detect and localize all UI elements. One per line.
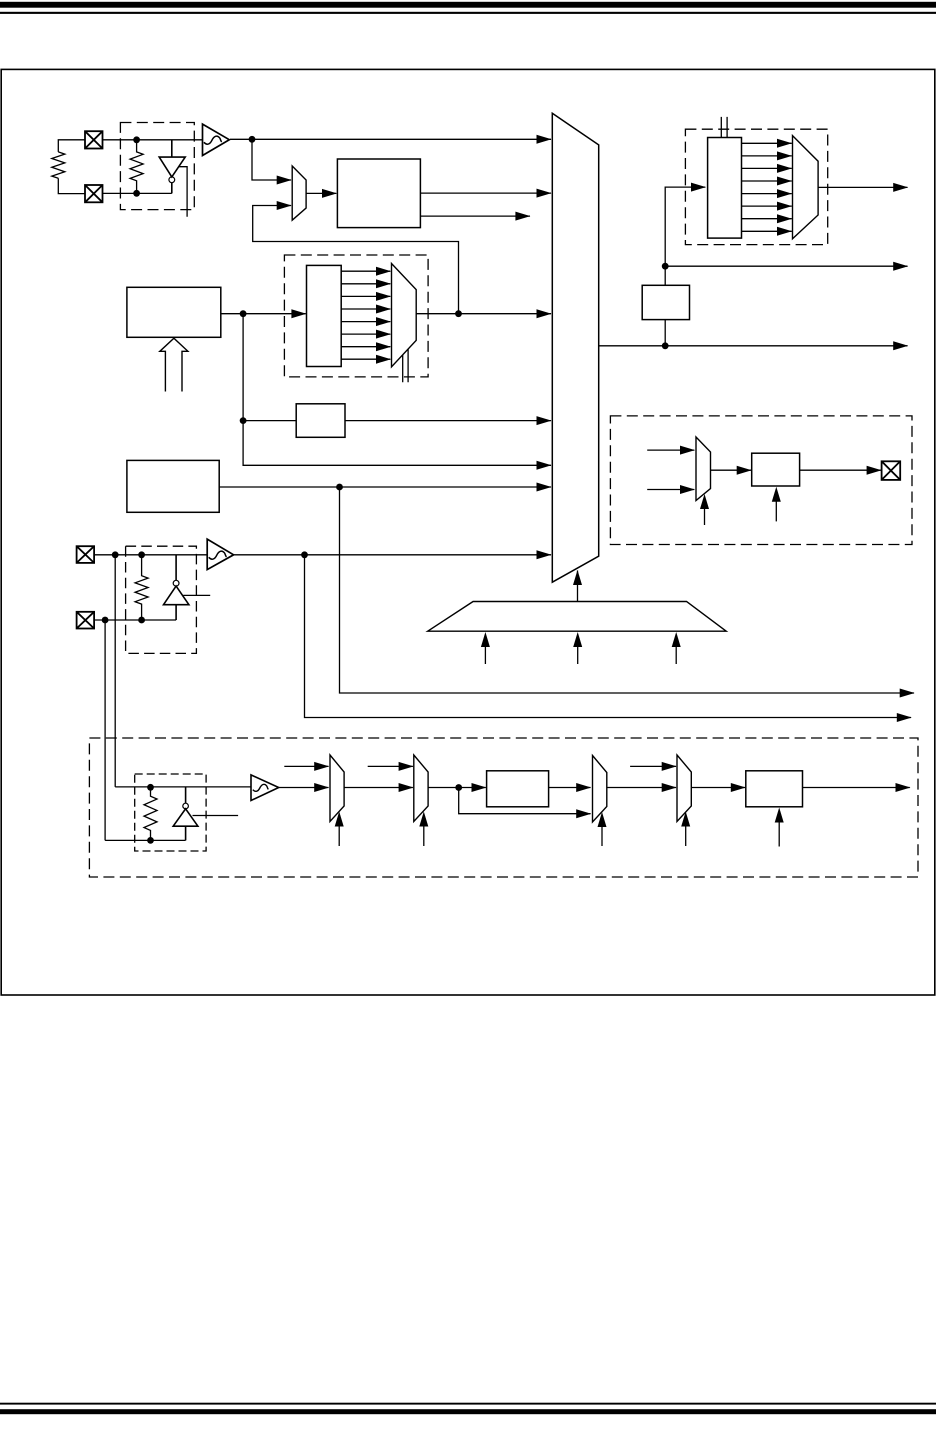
wire M2 out to system MUX bbox=[416, 313, 551, 315]
peripheral postscaler dashed box bbox=[685, 129, 827, 244]
wire PLL out B bbox=[420, 215, 530, 217]
header thin rule bbox=[0, 12, 936, 14]
CLKOUT dashed box bbox=[610, 416, 912, 545]
wire SOSCO to Schmitt ST2 bbox=[94, 554, 207, 556]
wire into MFINTOSC box bbox=[243, 420, 296, 422]
wire LFINTOSC out to MUX bbox=[219, 486, 551, 488]
driver select stub bbox=[775, 501, 777, 521]
wire crystal left loop bbox=[58, 140, 85, 194]
sync select stub bbox=[778, 822, 780, 847]
system clock MUX (large) bbox=[552, 113, 598, 582]
wire CLKOUT mux input A bbox=[647, 449, 694, 451]
node branch MF bbox=[240, 417, 247, 424]
output driver box bbox=[752, 453, 800, 486]
figure frame bbox=[1, 69, 935, 995]
wire SOSCO down to timer section bbox=[114, 555, 116, 787]
MFINTOSC divider box bbox=[296, 404, 345, 438]
pin OSC2 (crossed box) bbox=[85, 131, 103, 148]
T4 select stub bbox=[685, 826, 687, 846]
node SOSCO branch bbox=[112, 551, 119, 558]
wire HFINTOSC to postscaler bbox=[221, 313, 306, 315]
mux M2 (IRCF select) bbox=[392, 264, 417, 367]
wire CLKOUT mux input B bbox=[647, 489, 694, 491]
timer clock dashed box bbox=[89, 738, 918, 877]
Schmitt trigger ST1 bbox=[203, 124, 230, 155]
T3 select stub bbox=[601, 827, 603, 847]
node postscaler out bbox=[455, 310, 462, 317]
INV3 enable stub bbox=[193, 815, 239, 817]
T2 select stub bbox=[423, 826, 425, 846]
node LFINTOSC out bbox=[336, 484, 343, 491]
wire M1 out to PLL bbox=[306, 192, 336, 194]
wire LFINTOSC to peripherals bbox=[340, 487, 915, 693]
MUX select arrow from clock control bbox=[577, 571, 579, 602]
wire HFINTOSC to PLL mux bbox=[253, 206, 459, 314]
wire OSC1 to inverter bbox=[103, 192, 172, 194]
secondary oscillator dashed box bbox=[126, 546, 197, 653]
node lp bias top bbox=[147, 784, 154, 791]
INV1 enable stub bbox=[179, 167, 187, 217]
wire T2 out to prescaler bbox=[428, 787, 486, 789]
node SOSCI branch bbox=[102, 617, 109, 624]
mux T2 bbox=[414, 755, 428, 822]
node lp bias bottom bbox=[147, 837, 154, 844]
node mux out bbox=[662, 342, 669, 349]
4x PLL box bbox=[337, 159, 420, 228]
node HFINTOSC out bbox=[240, 310, 247, 317]
node ST2 out bbox=[301, 551, 308, 558]
node bias top bbox=[133, 136, 140, 143]
Schmitt trigger ST2 bbox=[207, 539, 233, 570]
resistor bias bbox=[130, 140, 143, 194]
wire OSC2 to Schmitt ST1 bbox=[103, 139, 203, 141]
wire T2 input A bbox=[368, 765, 413, 767]
wire ST2 out to MUX bbox=[234, 554, 551, 556]
external oscillator dashed box bbox=[120, 123, 194, 210]
wire MUX output bbox=[599, 345, 908, 347]
wire prescaler out to T3 bbox=[549, 787, 591, 789]
wire sosc bottom into timer bbox=[105, 839, 186, 841]
peripheral postscaler taps bbox=[742, 143, 792, 231]
LP oscillator dashed box bbox=[135, 774, 206, 851]
INTOSC postscaler dashed box bbox=[284, 255, 428, 377]
inverter INV1 (osc gain, pointing down) bbox=[159, 140, 185, 194]
mux T1 bbox=[330, 755, 344, 822]
postscaler taps to mux bbox=[341, 271, 390, 359]
node ST1 out bbox=[249, 136, 256, 143]
M5 select stub bbox=[704, 508, 706, 525]
node prescaler in bbox=[455, 784, 462, 791]
block arrow (tuning input) bbox=[160, 338, 188, 391]
postscaler box bbox=[307, 265, 342, 366]
node sosc bias bottom bbox=[138, 617, 145, 624]
clock control input stub 3 bbox=[675, 647, 677, 664]
wire SOSCI down to timer section bbox=[104, 620, 106, 840]
clock control input stub 2 bbox=[577, 647, 579, 664]
wire driver to CLKOUT pin bbox=[800, 469, 881, 471]
mux M4 (peripheral clock select) bbox=[793, 136, 819, 239]
prescaler box bbox=[487, 771, 549, 807]
wire ST1 out to PLL mux bbox=[252, 139, 291, 180]
footer thick bar bbox=[0, 1409, 936, 1414]
wire MFINTOSC out to MUX bbox=[345, 420, 551, 422]
mux T4 bbox=[677, 755, 691, 822]
wire T1 input A bbox=[284, 765, 328, 767]
resistor sosc bias bbox=[135, 555, 148, 620]
wire M4 out bbox=[818, 186, 907, 188]
wire SOSCI bottom bbox=[94, 619, 176, 621]
pin OSC1 (crossed box) bbox=[85, 185, 103, 202]
wire branch down from HFINTOSC node bbox=[243, 314, 551, 466]
node bias bottom bbox=[133, 190, 140, 197]
wire sync out bbox=[803, 787, 910, 789]
resistor lp bias bbox=[144, 787, 157, 840]
Schmitt trigger ST3 bbox=[251, 775, 279, 801]
pin SOSCI (crossed box) bbox=[77, 612, 95, 629]
wire divided clock out bbox=[665, 265, 907, 267]
clock control trapezoid bbox=[428, 602, 727, 632]
wire T3 out to T4 bbox=[607, 787, 676, 789]
pin CLKOUT (crossed box) bbox=[882, 461, 901, 480]
mux T3 bbox=[593, 756, 607, 823]
node divided clock bbox=[662, 263, 669, 270]
wire T4 out to sync bbox=[691, 787, 745, 789]
peripheral postscaler box bbox=[708, 138, 742, 239]
wire T4 input A bbox=[630, 765, 676, 767]
mux M5 (CLKOUT select) bbox=[696, 437, 711, 501]
M2 select stubs bbox=[403, 349, 408, 382]
sync box bbox=[746, 771, 803, 807]
resistor crystal bbox=[52, 152, 65, 178]
wire up to peripheral postscaler bbox=[665, 187, 705, 346]
node sosc bias top bbox=[138, 551, 145, 558]
inverter INV2 (sosc gain, pointing up) bbox=[164, 555, 189, 620]
wire M5 to output driver bbox=[711, 469, 752, 471]
wire sosc top into timer bbox=[115, 786, 251, 788]
HFINTOSC box bbox=[127, 287, 221, 337]
mux M1 (PLL input select) bbox=[292, 166, 306, 220]
clock control input stub 1 bbox=[484, 647, 486, 664]
footer thin rule bbox=[0, 1403, 936, 1405]
wire T1 out to T2 bbox=[344, 787, 413, 789]
prescaler bypass wire bbox=[459, 788, 591, 814]
T1 select stub bbox=[338, 826, 340, 846]
LFINTOSC box bbox=[127, 460, 219, 512]
wire ST1 output to MUX bbox=[230, 138, 551, 140]
CPU divider box bbox=[642, 285, 689, 319]
postscaler top stubs bbox=[721, 117, 727, 138]
header thick bar bbox=[0, 2, 936, 8]
inverter INV3 (lp gain, pointing up) bbox=[173, 787, 198, 841]
wire PLL out A bbox=[420, 192, 551, 194]
pin SOSCO (crossed box) bbox=[77, 546, 95, 563]
INV2 enable stub bbox=[183, 594, 210, 596]
wire SOSC to peripherals bbox=[305, 555, 912, 718]
wire ST3 out to mux T1 bbox=[279, 787, 329, 789]
